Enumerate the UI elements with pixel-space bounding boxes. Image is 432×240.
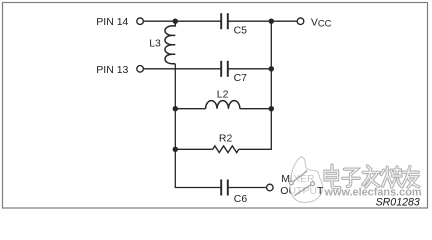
char you: [403, 170, 419, 173]
junction node R2 left: [173, 147, 178, 152]
wire L2 left: [175, 108, 205, 110]
char shao: [386, 167, 389, 175]
wire C5 to VCC: [228, 20, 297, 22]
inductor L2: [206, 101, 240, 109]
svg-text:R2: R2: [219, 133, 233, 145]
wire R2 right to bus corner: [239, 148, 272, 150]
wire R2 left: [175, 148, 212, 150]
svg-text:SR01283: SR01283: [376, 196, 420, 208]
svg-text:C7: C7: [234, 72, 248, 84]
char dian: [331, 165, 333, 171]
char fa: [368, 166, 371, 170]
junction node C5/VCC bus: [269, 19, 274, 24]
capacitor C6: [221, 180, 228, 196]
wire bottom to C6: [175, 187, 222, 189]
terminal PIN 14: [137, 18, 144, 25]
capacitor C7: [221, 61, 228, 77]
junction node L2 left: [173, 106, 178, 111]
char you: [403, 171, 419, 173]
svg-text:PIN 13: PIN 13: [96, 64, 128, 76]
char fa: [368, 166, 371, 170]
terminal PIN 13: [137, 66, 144, 73]
resistor R2: [213, 146, 239, 153]
wire L2 right: [240, 108, 271, 110]
char dian: [330, 165, 333, 171]
char shao: [386, 167, 388, 175]
wire right bus vertical: [270, 21, 272, 149]
svg-text:L2: L2: [217, 89, 229, 101]
wire PIN14 to C5: [143, 20, 221, 22]
junction node C7/bus: [269, 66, 274, 71]
wire left spine below coil: [174, 64, 176, 188]
svg-text:C6: C6: [234, 193, 248, 205]
svg-text:T: T: [317, 185, 324, 197]
junction node L2 right: [269, 106, 274, 111]
watermark characters highlight: [325, 165, 419, 187]
terminal VCC: [297, 18, 304, 25]
svg-text:L3: L3: [149, 38, 161, 50]
char zi: [344, 169, 357, 174]
terminal mixer output: [267, 184, 274, 191]
junction node PIN14/L3: [173, 19, 178, 24]
svg-text:VCC: VCC: [311, 16, 332, 28]
wire C6 to output: [228, 187, 267, 189]
watermark characters (stylized): [325, 165, 419, 187]
inductor L3: [165, 21, 175, 64]
watermark logo circle: [290, 157, 323, 203]
char zi: [344, 169, 357, 174]
wire C7 to right bus: [228, 68, 271, 70]
svg-text:C5: C5: [234, 25, 248, 37]
capacitor C5: [221, 13, 228, 29]
wire PIN13 to C7: [143, 68, 221, 70]
svg-text:PIN 14: PIN 14: [96, 16, 128, 28]
